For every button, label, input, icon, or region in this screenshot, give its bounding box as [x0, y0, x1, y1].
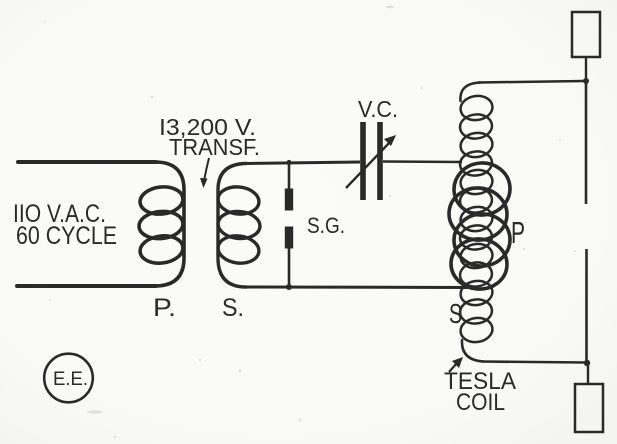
wire top rail S to capacitor — [244, 162, 360, 164]
node top of spark gap — [286, 160, 291, 165]
wire tesla secondary bottom to electrode — [482, 362, 587, 363]
svg-text:P: P — [511, 215, 525, 250]
transformer primary P — [138, 162, 185, 286]
node bottom of spark gap — [286, 284, 292, 290]
wire down to gap — [585, 81, 588, 204]
svg-text:S.: S. — [222, 294, 244, 322]
wire capacitor to tesla primary — [383, 160, 462, 163]
svg-text:COIL: COIL — [456, 389, 505, 416]
capacitor V.C. — [360, 122, 383, 200]
wire below discharge gap — [585, 249, 588, 363]
wire tesla secondary top to electrode — [478, 81, 584, 83]
node top junction — [583, 78, 589, 84]
svg-text:E.E.: E.E. — [53, 369, 88, 390]
wire electrode to junction — [585, 57, 587, 81]
arrow to transformer — [200, 158, 209, 188]
svg-text:60 CYCLE: 60 CYCLE — [16, 222, 117, 250]
svg-text:V.C.: V.C. — [358, 96, 398, 122]
wire bottom rail — [245, 286, 470, 290]
bottom electrode — [575, 384, 603, 432]
transformer secondary S — [217, 164, 262, 288]
svg-text:TRANSF.: TRANSF. — [169, 134, 260, 160]
tesla primary coil P — [447, 160, 513, 291]
svg-text:S: S — [449, 298, 462, 329]
svg-text:S.G.: S.G. — [307, 213, 345, 238]
E.E. logo circle — [44, 354, 93, 403]
wire top-left 110VAC line — [18, 160, 156, 164]
arrow through capacitor — [346, 135, 396, 188]
node bottom junction — [584, 360, 590, 366]
spark gap S.G. — [285, 163, 293, 287]
top electrode — [572, 12, 600, 57]
svg-text:P.: P. — [153, 294, 176, 322]
wire bottom-left 110VAC line — [17, 284, 156, 288]
arrow to tesla coil — [449, 357, 463, 372]
wire junction to bottom electrode — [587, 363, 589, 384]
tesla secondary coil — [459, 83, 495, 362]
